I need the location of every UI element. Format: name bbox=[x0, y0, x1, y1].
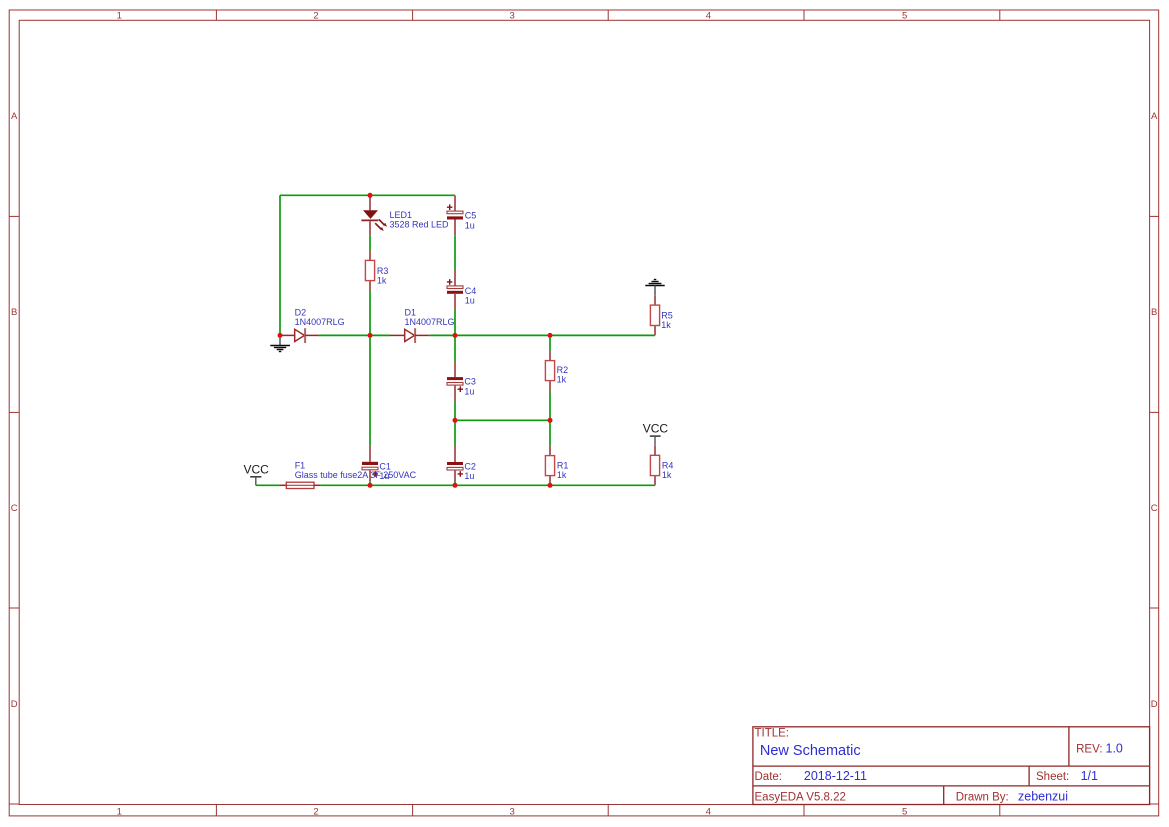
svg-text:3: 3 bbox=[510, 806, 515, 817]
svg-text:zebenzui: zebenzui bbox=[1018, 789, 1068, 803]
ruler tick top 2 bbox=[412, 10, 414, 20]
wire C5 to C4 bbox=[454, 235, 456, 270]
svg-text:2018-12-11: 2018-12-11 bbox=[804, 769, 867, 783]
svg-text:A: A bbox=[1151, 111, 1158, 122]
junction node middle left bbox=[278, 333, 283, 338]
resistor R2 bbox=[545, 351, 568, 391]
wire short horizontal C3node-R2node bbox=[455, 419, 550, 421]
svg-text:F1: F1 bbox=[295, 460, 306, 470]
svg-text:2: 2 bbox=[313, 11, 318, 22]
ruler tick left 2 bbox=[9, 411, 19, 413]
wire middle to C1 bbox=[369, 335, 371, 445]
svg-text:1.0: 1.0 bbox=[1106, 741, 1123, 755]
junction node top LED bbox=[368, 193, 373, 198]
capacitor C1 bbox=[362, 446, 391, 482]
svg-text:1N4007RLG: 1N4007RLG bbox=[405, 317, 455, 327]
svg-text:1k: 1k bbox=[377, 276, 387, 286]
wire C1 to bottom bbox=[369, 482, 371, 485]
svg-text:C5: C5 bbox=[465, 211, 477, 221]
VCC left bbox=[244, 462, 270, 485]
resistor R3 bbox=[365, 251, 388, 291]
wire middle horizontal segment D2-D1 bbox=[319, 334, 390, 336]
capacitor C4 bbox=[447, 270, 476, 310]
ruler tick bottom 4 bbox=[803, 805, 805, 816]
wire node to C2 bbox=[454, 420, 456, 446]
svg-text:D1: D1 bbox=[405, 307, 417, 317]
svg-text:Glass tube fuse2A 3F 250VAC: Glass tube fuse2A 3F 250VAC bbox=[295, 470, 417, 480]
svg-text:3: 3 bbox=[510, 11, 515, 22]
svg-text:1k: 1k bbox=[557, 375, 567, 385]
wire R3 to middle bbox=[369, 291, 371, 336]
ruler tick left 4 bbox=[9, 803, 19, 805]
svg-text:C4: C4 bbox=[465, 286, 477, 296]
ruler tick top 5 bbox=[999, 10, 1001, 20]
diode D1 bbox=[390, 307, 455, 343]
svg-text:5: 5 bbox=[902, 11, 907, 22]
svg-text:C1: C1 bbox=[379, 461, 391, 471]
junction node bottom C1 bbox=[368, 483, 373, 488]
ruler tick bottom 5 bbox=[999, 805, 1001, 816]
svg-text:R2: R2 bbox=[557, 365, 569, 375]
ruler tick top 1 bbox=[215, 10, 217, 20]
wire top horizontal bbox=[280, 194, 455, 196]
ruler tick right 1 bbox=[1150, 215, 1159, 217]
wire bottom left segment bbox=[256, 484, 280, 486]
ruler tick right 3 bbox=[1150, 607, 1159, 609]
svg-text:D: D bbox=[11, 699, 18, 710]
svg-text:1: 1 bbox=[117, 806, 122, 817]
wire C3 to node bbox=[454, 401, 456, 420]
svg-text:B: B bbox=[11, 307, 17, 318]
svg-text:C: C bbox=[11, 503, 18, 514]
svg-text:1k: 1k bbox=[557, 470, 567, 480]
svg-text:1/1: 1/1 bbox=[1081, 769, 1098, 783]
diode D2 bbox=[280, 307, 345, 343]
ground top right bbox=[645, 280, 664, 296]
svg-text:VCC: VCC bbox=[643, 422, 669, 436]
svg-text:C: C bbox=[1151, 503, 1158, 514]
svg-text:4: 4 bbox=[706, 806, 711, 817]
svg-text:5: 5 bbox=[902, 806, 907, 817]
svg-text:R3: R3 bbox=[377, 266, 389, 276]
svg-text:1: 1 bbox=[117, 11, 122, 22]
resistor R4 bbox=[650, 446, 673, 486]
svg-text:1u: 1u bbox=[465, 220, 475, 230]
ruler tick bottom 1 bbox=[215, 805, 217, 816]
wire C4 to middle bbox=[454, 310, 456, 335]
capacitor C3 bbox=[447, 361, 476, 401]
svg-text:VCC: VCC bbox=[244, 462, 270, 476]
ruler tick bottom 3 bbox=[607, 805, 609, 816]
ruler tick left 1 bbox=[9, 215, 19, 217]
junction node short wire right bbox=[548, 418, 553, 423]
svg-text:REV:: REV: bbox=[1076, 743, 1102, 755]
capacitor C2 bbox=[447, 446, 476, 482]
ruler tick right 2 bbox=[1150, 411, 1159, 413]
svg-text:1u: 1u bbox=[465, 296, 475, 306]
svg-text:1u: 1u bbox=[464, 386, 474, 396]
wire bottom horizontal bbox=[320, 484, 655, 486]
svg-text:1u: 1u bbox=[464, 471, 474, 481]
wire left vertical bbox=[279, 195, 281, 335]
resistor R5 bbox=[650, 296, 672, 336]
wire C2 to bottom bbox=[454, 482, 456, 485]
LED LED1 bbox=[361, 195, 449, 235]
junction node short wire left bbox=[453, 418, 458, 423]
wire middle to C3 bbox=[454, 335, 456, 361]
svg-text:C2: C2 bbox=[464, 461, 476, 471]
junction node middle LED column bbox=[368, 333, 373, 338]
svg-text:1k: 1k bbox=[662, 470, 672, 480]
ruler tick bottom 2 bbox=[412, 805, 414, 816]
ruler tick top 3 bbox=[607, 10, 609, 20]
fuse F1 bbox=[280, 460, 417, 488]
svg-text:Drawn By:: Drawn By: bbox=[956, 791, 1009, 803]
svg-text:1k: 1k bbox=[661, 320, 671, 330]
svg-text:3528 Red LED: 3528 Red LED bbox=[390, 220, 450, 230]
svg-text:R1: R1 bbox=[557, 460, 569, 470]
svg-text:4: 4 bbox=[706, 11, 711, 22]
VCC right bbox=[643, 422, 669, 446]
svg-text:C3: C3 bbox=[464, 377, 476, 387]
resistor R1 bbox=[545, 446, 568, 486]
wire node to R1 bbox=[549, 420, 551, 445]
svg-text:EasyEDA V5.8.22: EasyEDA V5.8.22 bbox=[755, 791, 846, 803]
wire LED to R3 bbox=[369, 235, 371, 250]
svg-text:TITLE:: TITLE: bbox=[755, 727, 790, 739]
svg-text:1u: 1u bbox=[379, 471, 389, 481]
svg-text:1N4007RLG: 1N4007RLG bbox=[295, 317, 345, 327]
wire R2 to node bbox=[549, 391, 551, 421]
svg-text:D: D bbox=[1151, 699, 1158, 710]
junction node bottom R1 bbox=[548, 483, 553, 488]
svg-text:Sheet:: Sheet: bbox=[1036, 771, 1069, 783]
svg-text:LED1: LED1 bbox=[390, 210, 413, 220]
capacitor C5 bbox=[447, 195, 476, 235]
ruler tick left 3 bbox=[9, 607, 19, 609]
junction node middle cap column bbox=[453, 333, 458, 338]
svg-text:D2: D2 bbox=[295, 307, 307, 317]
ruler tick right 4 bbox=[1150, 803, 1159, 805]
svg-text:A: A bbox=[11, 111, 18, 122]
title block outline bbox=[753, 727, 1150, 805]
svg-text:New Schematic: New Schematic bbox=[760, 743, 861, 759]
svg-text:B: B bbox=[1151, 307, 1157, 318]
svg-text:Date:: Date: bbox=[755, 771, 783, 783]
wire middle horizontal segment D1-R5 bbox=[429, 334, 655, 336]
svg-text:R5: R5 bbox=[661, 310, 673, 320]
junction node middle R2 bbox=[548, 333, 553, 338]
svg-text:R4: R4 bbox=[662, 460, 674, 470]
svg-text:2: 2 bbox=[313, 806, 318, 817]
wire middle to R2 bbox=[549, 335, 551, 350]
junction node bottom C2 bbox=[453, 483, 458, 488]
ground left bbox=[270, 338, 290, 352]
ruler tick top 4 bbox=[803, 10, 805, 20]
